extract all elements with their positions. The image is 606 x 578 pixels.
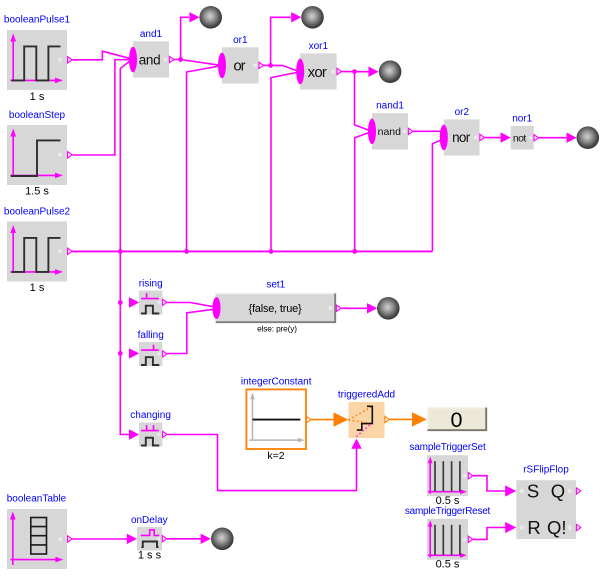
svg-text:nand: nand: [378, 126, 402, 138]
svg-text:sampleTriggerReset: sampleTriggerReset: [405, 506, 491, 517]
wire sampleTriggerReset to rSFlipFlop R: [473, 528, 506, 540]
wire booleanPulse2 to nand1 (vertical x=354.7): [355, 133, 369, 252]
svg-text:or1: or1: [233, 35, 248, 46]
svg-text:changing: changing: [130, 410, 171, 421]
svg-text:1 s s: 1 s s: [138, 550, 162, 562]
svg-text:{false, true}: {false, true}: [248, 303, 302, 315]
svg-text:booleanPulse2: booleanPulse2: [4, 206, 71, 217]
block booleanPulse1: [7, 30, 72, 90]
svg-text:booleanTable: booleanTable: [7, 493, 67, 504]
wire and1 output to junction: [173, 59, 180, 61]
junction or1 tap: [184, 249, 189, 254]
svg-text:rising: rising: [139, 279, 163, 290]
svg-text:S: S: [527, 481, 539, 502]
wire and1 junction up to showValue sphere: [181, 17, 189, 59]
junction or1 output: [268, 63, 273, 68]
block integerConstant: [246, 389, 311, 449]
wire or2 to nor1(not): [484, 137, 501, 139]
wire booleanStep to and1: [72, 60, 130, 155]
junction xor1 output: [352, 69, 357, 74]
wire changing to triggeredAdd trigger: [167, 435, 357, 491]
wire falling to set1: [167, 309, 213, 353]
arrow into rising: [129, 297, 139, 307]
svg-text:nand1: nand1: [376, 101, 404, 112]
svg-text:0.5 s: 0.5 s: [436, 559, 460, 571]
wire or1 junction up to showValue sphere: [271, 17, 291, 65]
junction falling tap: [118, 351, 123, 356]
junction nand1 tap: [352, 249, 357, 254]
wire xor1 to nand1 (vertical then diagonal): [355, 72, 369, 131]
svg-text:0: 0: [451, 408, 463, 432]
svg-text:onDelay: onDelay: [131, 515, 168, 526]
svg-text:and1: and1: [140, 29, 163, 40]
block falling: [139, 342, 167, 366]
sphere showValue5 (onDelay): [211, 528, 234, 551]
arrow into falling: [129, 348, 139, 358]
wire booleanPulse1 to and1: [72, 51, 130, 60]
wire nor1 to showValue sphere: [539, 137, 567, 139]
gate and1: [129, 41, 174, 77]
gate nand1: [368, 113, 413, 149]
wire xor1 output to junction: [341, 71, 355, 73]
svg-text:triggeredAdd: triggeredAdd: [338, 390, 395, 401]
svg-text:or: or: [233, 58, 245, 75]
svg-text:R: R: [527, 517, 540, 538]
wire or1 to xor1 (diagonal): [271, 65, 298, 70]
block changing: [139, 423, 167, 447]
sphere showValue3 (xor1): [379, 60, 402, 83]
junction at bus x=120.3: [118, 249, 123, 254]
svg-text:nor1: nor1: [512, 113, 532, 124]
wire onDelay to showValue sphere: [167, 538, 201, 540]
svg-text:1.5 s: 1.5 s: [25, 186, 49, 198]
wire booleanPulse2 to and1 (vertical x=120.3 up): [120, 61, 129, 251]
gate or1: [218, 47, 263, 83]
wire integerConstant to triggeredAdd (orange): [311, 419, 334, 421]
svg-text:and: and: [139, 52, 161, 67]
svg-text:booleanPulse1: booleanPulse1: [4, 15, 71, 26]
gate nor1 (not): [511, 126, 539, 150]
wire set1 to showValue sphere: [341, 307, 367, 309]
wire booleanPulse2 bus row: [72, 250, 433, 252]
sphere showValue6 (nor1): [577, 126, 600, 149]
wire nand1 to or2: [413, 130, 441, 132]
block booleanStep: [7, 125, 72, 185]
svg-text:rSFlipFlop: rSFlipFlop: [523, 464, 569, 475]
junction xor1 tap: [269, 249, 274, 254]
wire booleanPulse2 down to rising/falling/changing: [120, 251, 129, 434]
wire or1 output to junction: [263, 64, 271, 66]
junction rising tap: [118, 300, 123, 305]
svg-text:sampleTriggerSet: sampleTriggerSet: [409, 442, 486, 453]
block set1 (MultiSwitch): [213, 293, 341, 323]
block sampleTriggerSet: [427, 455, 473, 496]
junction and1 output: [178, 57, 183, 62]
wire and1 to or1 (diagonal): [181, 60, 219, 66]
wire booleanPulse2 to xor1 (vertical x=271): [271, 72, 297, 251]
svg-text:k=2: k=2: [267, 450, 284, 462]
sphere showValue (and1): [199, 6, 222, 29]
block sampleTriggerReset: [427, 519, 473, 560]
svg-text:set1: set1: [266, 280, 285, 291]
wire triggeredAdd to display (orange): [390, 418, 414, 420]
block onDelay: [137, 527, 167, 551]
wire booleanTable to onDelay: [72, 538, 127, 540]
svg-text:Q: Q: [551, 481, 565, 502]
svg-text:nor: nor: [452, 130, 471, 145]
svg-text:integerConstant: integerConstant: [241, 377, 312, 388]
sphere showValue2 (or1): [301, 6, 324, 29]
sphere showValue4 (set1): [377, 297, 400, 320]
svg-text:booleanStep: booleanStep: [9, 110, 66, 121]
svg-text:xor: xor: [308, 64, 327, 81]
svg-text:not: not: [513, 133, 526, 145]
gate or2 (nor): [440, 119, 485, 155]
svg-text:else: pre(y): else: pre(y): [257, 324, 297, 334]
block rSFlipFlop: [516, 480, 581, 539]
block showValue display 0: [427, 407, 487, 432]
svg-text:1 s: 1 s: [30, 282, 45, 294]
block booleanPulse2: [7, 222, 72, 282]
wire xor1 junction to showValue sphere: [355, 71, 369, 73]
svg-text:or2: or2: [455, 107, 470, 118]
block booleanTable: [7, 509, 72, 569]
svg-text:Q!: Q!: [547, 517, 567, 538]
wire booleanPulse2 to or1 (vertical x=186.5): [187, 66, 219, 251]
arrow into changing: [129, 429, 139, 439]
block rising: [139, 291, 167, 315]
block triggeredAdd: [349, 402, 390, 438]
gate xor1: [296, 53, 341, 89]
svg-text:1 s: 1 s: [30, 91, 45, 103]
svg-text:falling: falling: [138, 330, 164, 341]
wire rising to set1: [167, 303, 214, 307]
wire booleanPulse2 to or2 (bus end rises): [432, 140, 440, 251]
wire sampleTriggerSet to rSFlipFlop S: [473, 476, 506, 491]
svg-text:xor1: xor1: [309, 41, 329, 52]
